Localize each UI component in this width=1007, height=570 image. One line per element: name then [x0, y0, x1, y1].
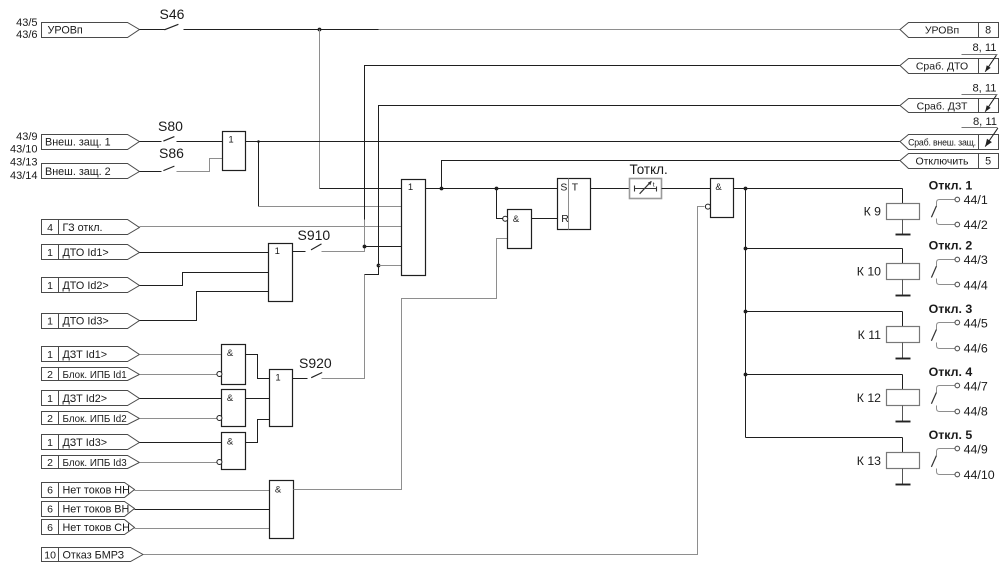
contact Откл. 4 upper terminal	[937, 383, 960, 392]
wire U4 output	[426, 188, 558, 190]
svg-text:Откл. 4: Откл. 4	[929, 365, 973, 379]
OR gate D1	[223, 132, 246, 171]
wire D3 output to OR D6	[246, 355, 270, 379]
svg-text:Нет токов СН: Нет токов СН	[63, 522, 130, 534]
contact Откл. 5 lower terminal	[937, 469, 960, 477]
wire U8 output	[734, 188, 746, 190]
node D1 output junction	[257, 140, 260, 143]
svg-text:6: 6	[47, 484, 53, 496]
contact Откл. 1 blade	[931, 206, 936, 217]
wire ДЗТ Id2 to NAND D4	[140, 398, 222, 400]
pin 44/3	[964, 253, 988, 267]
svg-text:S: S	[560, 183, 567, 194]
svg-text:10: 10	[44, 549, 56, 561]
relay coil К 9	[887, 204, 920, 220]
input flag Внеш. защ. 2	[42, 164, 140, 179]
svg-text:1: 1	[228, 134, 233, 145]
wire down to NAND U5 input 1	[497, 189, 504, 219]
switch S920	[293, 355, 332, 379]
svg-text:8: 8	[985, 25, 991, 37]
wire trigger output to timer	[591, 188, 630, 190]
svg-text:44/2: 44/2	[964, 218, 988, 232]
wire S910 junction gray segment	[364, 220, 366, 247]
svg-text:1: 1	[47, 280, 53, 292]
wire coil К 10 to ground	[902, 280, 904, 295]
label contact Откл. 2	[929, 239, 973, 253]
AND gate D3 with inverted input	[217, 345, 246, 385]
svg-text:44/10: 44/10	[964, 468, 995, 482]
input flag ДЗТ Id3>	[42, 435, 140, 450]
ground К 9	[896, 234, 911, 236]
svg-text:S46: S46	[160, 6, 185, 22]
relay coil К 11	[887, 327, 920, 343]
pin 44/7	[964, 379, 988, 393]
input flag Нет токов СН	[42, 520, 135, 535]
input flag Отказ БМРЗ	[42, 548, 144, 562]
switch S86	[140, 145, 185, 172]
OR gate D6	[270, 370, 293, 427]
wire УРОВп to output flag	[184, 29, 901, 31]
wire ДЗТ Id1 to NAND D3	[140, 354, 222, 356]
svg-text:44/4: 44/4	[964, 279, 988, 293]
svg-text:ДТО Id2>: ДТО Id2>	[63, 280, 109, 292]
wire Нет токов НН to AND D7	[135, 490, 270, 492]
svg-text:2: 2	[47, 457, 53, 469]
wire up to Сраб. ДЗТ output	[379, 106, 901, 266]
pin 44/1	[964, 193, 988, 207]
svg-text:Сраб. ДЗТ: Сраб. ДЗТ	[917, 100, 968, 112]
wire branch to relay К 9	[746, 188, 903, 190]
svg-text:44/1: 44/1	[964, 193, 988, 207]
svg-text:1: 1	[47, 247, 53, 259]
svg-text:ДТО Id1>: ДТО Id1>	[63, 247, 109, 259]
node bus junction К 11	[744, 310, 748, 314]
wire timer output to AND U8	[662, 188, 711, 190]
wire ДТО Id1 to OR D2	[140, 252, 269, 254]
svg-text:Откл. 2: Откл. 2	[929, 239, 973, 253]
svg-text:43/13: 43/13	[10, 156, 38, 168]
svg-text:Сраб. ДТО: Сраб. ДТО	[916, 60, 968, 72]
wire D4 output to OR D6	[246, 398, 270, 400]
contact Откл. 4 blade	[931, 393, 936, 404]
wire S86 to OR D1	[177, 159, 223, 172]
svg-text:Блок. ИПБ Id1: Блок. ИПБ Id1	[63, 370, 127, 381]
svg-text:Блок. ИПБ Id3: Блок. ИПБ Id3	[63, 458, 128, 469]
wire ДТО Id3 to OR D2	[140, 292, 269, 321]
timer Тоткл.	[630, 179, 662, 199]
svg-text:6: 6	[47, 503, 53, 515]
label Тоткл.	[630, 162, 668, 177]
svg-text:ДТО Id3>: ДТО Id3>	[63, 315, 109, 327]
contact Откл. 2 blade	[931, 266, 936, 277]
svg-text:ГЗ откл.: ГЗ откл.	[63, 222, 103, 234]
svg-text:2: 2	[47, 413, 53, 425]
svg-text:8, 11: 8, 11	[973, 116, 997, 128]
svg-text:К 11: К 11	[858, 328, 882, 342]
svg-text:1: 1	[47, 437, 53, 449]
svg-text:8, 11: 8, 11	[972, 82, 996, 94]
svg-text:1: 1	[408, 182, 413, 193]
node U4 output junction A	[440, 187, 444, 191]
svg-text:Тоткл.: Тоткл.	[630, 162, 668, 177]
pin 44/4	[964, 279, 988, 293]
svg-text:43/9: 43/9	[16, 131, 37, 143]
wire ГЗ откл. to OR U4 input 3	[140, 226, 402, 228]
wire into coil К 11	[902, 312, 904, 327]
label 8, 11 for Сраб. ДТО	[962, 42, 998, 54]
node УРОВп junction	[318, 28, 322, 32]
output flag Сраб. ДЗТ	[900, 99, 999, 113]
wire S910 output	[322, 247, 365, 252]
wire up to Сраб. ДТО output	[365, 66, 901, 220]
node S920 junction	[377, 264, 381, 268]
svg-text:К 10: К 10	[857, 265, 881, 279]
contact Откл. 3 upper terminal	[937, 320, 960, 329]
wire into coil К 13	[902, 438, 904, 453]
svg-text:&: &	[513, 214, 520, 225]
contact Откл. 1 lower terminal	[937, 219, 960, 227]
svg-text:2: 2	[47, 369, 53, 381]
pins 43/9 43/10	[10, 131, 38, 155]
wire Блок. ИПБ Id3 to NAND D5	[140, 462, 217, 464]
output flag Сраб. внеш. защ.	[900, 135, 999, 150]
svg-text:Сраб. внеш. защ.: Сраб. внеш. защ.	[908, 137, 976, 147]
pin 44/6	[964, 342, 988, 356]
node bus junction К 12	[744, 373, 748, 377]
contact Откл. 4 lower terminal	[937, 406, 960, 414]
wire branch to relay К 13	[746, 437, 903, 439]
svg-text:&: &	[227, 348, 234, 359]
output flag Отключить	[900, 154, 999, 169]
svg-text:Отключить: Отключить	[915, 156, 969, 168]
ground К 12	[896, 421, 911, 423]
wire D7 output to NAND U5 input 2	[294, 239, 508, 490]
ground К 10	[896, 295, 911, 297]
svg-text:8, 11: 8, 11	[972, 42, 996, 54]
input flag ГЗ откл.	[42, 220, 140, 235]
svg-text:43/5: 43/5	[16, 17, 37, 29]
svg-text:К 13: К 13	[857, 454, 881, 468]
svg-text:Откл. 5: Откл. 5	[929, 428, 973, 442]
wire УРОВп down to OR U4 input 1	[320, 30, 402, 189]
svg-text:ДЗТ Id1>: ДЗТ Id1>	[63, 349, 108, 361]
ground К 11	[896, 358, 911, 360]
RS trigger U6	[558, 179, 591, 230]
wire U5 output to RS trigger R input	[532, 218, 558, 220]
wire into coil К 9	[902, 189, 904, 204]
label contact Откл. 5	[929, 428, 973, 442]
node S910 junction	[363, 245, 367, 249]
node bus junction К 10	[744, 247, 748, 251]
wire S920 to OR U4 input 5	[379, 265, 402, 267]
contact Откл. 3 lower terminal	[937, 343, 960, 351]
AND gate D7	[270, 481, 294, 539]
input flag Блок. ИПБ Id3	[42, 456, 140, 469]
wire into coil К 10	[902, 249, 904, 264]
svg-text:44/5: 44/5	[964, 316, 988, 330]
svg-text:T: T	[572, 183, 579, 194]
svg-text:44/9: 44/9	[964, 442, 988, 456]
pin 44/8	[964, 405, 988, 419]
svg-text:5: 5	[985, 156, 991, 168]
input flag Внеш. защ. 1	[42, 135, 140, 150]
svg-text:Откл. 1: Откл. 1	[929, 178, 973, 192]
svg-text:S920: S920	[299, 355, 332, 371]
wire into coil К 12	[902, 375, 904, 390]
input flag ДТО Id1>	[42, 245, 140, 260]
pin 44/2	[964, 218, 988, 232]
wire ДТО Id2 to OR D2	[140, 273, 269, 286]
input flag Блок. ИПБ Id1	[42, 368, 140, 381]
label 8, 11 for Сраб. внеш. защ.	[962, 116, 998, 128]
wire Отказ БМРЗ to AND U8 inverted input	[144, 207, 705, 555]
svg-text:t: t	[653, 182, 655, 189]
wire Нет токов СН to AND D7	[135, 528, 270, 530]
svg-text:R: R	[561, 214, 569, 225]
svg-text:43/6: 43/6	[16, 29, 37, 41]
signal-to-recorder icon on Сраб. ДЗТ	[985, 95, 996, 112]
svg-text:УРОВп: УРОВп	[48, 25, 83, 37]
svg-text:Внеш. защ. 1: Внеш. защ. 1	[45, 136, 111, 148]
switch S910	[293, 227, 331, 252]
AND gate U5 with inverted input	[503, 210, 532, 249]
pins 43/13 43/14	[10, 156, 38, 182]
svg-text:&: &	[715, 182, 722, 193]
wire branch to relay К 12	[746, 374, 903, 376]
svg-text:ДЗТ Id3>: ДЗТ Id3>	[63, 437, 108, 449]
wire ДЗТ Id3 to NAND D5	[140, 442, 222, 444]
svg-text:44/6: 44/6	[964, 342, 988, 356]
wire D1 output down to OR U4 input 2	[259, 142, 402, 207]
wire to Отключить output	[442, 161, 901, 189]
input flag ДТО Id3>	[42, 314, 140, 329]
svg-text:1: 1	[47, 393, 53, 405]
contact Откл. 3 blade	[931, 330, 936, 341]
wire Блок. ИПБ Id1 to NAND D3	[140, 374, 217, 376]
relay coil К 10	[887, 264, 920, 280]
output flag УРОВп out	[900, 23, 999, 38]
wire S80 to OR D1	[177, 141, 223, 143]
switch S46	[140, 6, 185, 30]
svg-text:1: 1	[275, 372, 280, 383]
svg-text:&: &	[275, 485, 282, 496]
svg-text:Откл. 3: Откл. 3	[929, 302, 973, 316]
svg-text:S86: S86	[159, 145, 184, 161]
svg-text:Нет токов ВН: Нет токов ВН	[63, 503, 130, 515]
label К 12	[857, 391, 881, 405]
input flag Блок. ИПБ Id2	[42, 412, 140, 425]
svg-text:К 12: К 12	[857, 391, 881, 405]
svg-text:УРОВп: УРОВп	[925, 25, 959, 37]
svg-text:43/10: 43/10	[10, 144, 38, 156]
wire D5 output to OR D6	[246, 420, 270, 443]
wire S910 to OR U4 input 4	[365, 246, 402, 248]
label 8, 11 for Сраб. ДЗТ	[962, 82, 998, 94]
input flag ДТО Id2>	[42, 278, 140, 293]
input flag УРОВп	[42, 23, 140, 38]
AND gate D5 with inverted input	[217, 433, 246, 470]
relay coil К 12	[887, 390, 920, 406]
svg-text:&: &	[227, 437, 234, 448]
wire branch to relay К 10	[746, 248, 903, 250]
contact Откл. 5 upper terminal	[937, 446, 960, 455]
wire coil К 12 to ground	[902, 406, 904, 422]
contact Откл. 2 upper terminal	[937, 257, 960, 266]
input flag ДЗТ Id2>	[42, 391, 140, 406]
svg-text:1: 1	[47, 315, 53, 327]
label К 10	[857, 265, 881, 279]
svg-text:ДЗТ Id2>: ДЗТ Id2>	[63, 393, 108, 405]
signal-to-recorder icon on Сраб. внеш. защ.	[985, 128, 998, 147]
switch S80	[140, 118, 184, 142]
svg-text:Блок. ИПБ Id2: Блок. ИПБ Id2	[63, 414, 127, 425]
contact Откл. 5 blade	[931, 456, 936, 467]
node output bus junction	[744, 187, 748, 191]
label contact Откл. 4	[929, 365, 973, 379]
svg-text:S910: S910	[298, 227, 331, 243]
label contact Откл. 1	[929, 178, 973, 192]
svg-text:Отказ БМРЗ: Отказ БМРЗ	[63, 549, 125, 561]
wire S920 output route	[322, 266, 379, 379]
wire Блок. ИПБ Id2 to NAND D4	[140, 418, 217, 420]
svg-text:6: 6	[47, 522, 53, 534]
wire output bus vertical	[745, 189, 747, 438]
svg-text:К 9: К 9	[864, 204, 882, 218]
pin 44/5	[964, 316, 988, 330]
svg-text:44/8: 44/8	[964, 405, 988, 419]
OR gate U4	[402, 180, 426, 276]
svg-text:43/14: 43/14	[10, 170, 38, 182]
svg-text:4: 4	[47, 222, 53, 234]
pin 44/9	[964, 442, 988, 456]
contact Откл. 2 lower terminal	[937, 279, 960, 287]
wire D1 output to Сраб. внеш. защ.	[246, 141, 901, 143]
svg-text:Внеш. защ. 2: Внеш. защ. 2	[45, 166, 111, 178]
input flag ДЗТ Id1>	[42, 347, 140, 362]
wire coil К 13 to ground	[902, 469, 904, 485]
contact Откл. 1 upper terminal	[937, 197, 960, 206]
node U4 output junction B	[495, 187, 499, 191]
label К 11	[858, 328, 882, 342]
AND gate U8 with inverted input	[705, 179, 733, 218]
pins 43/5 43/6	[16, 17, 37, 41]
pin 44/10	[964, 468, 995, 482]
AND gate D4 with inverted input	[217, 390, 246, 427]
label К 9	[864, 204, 882, 218]
svg-text:&: &	[227, 393, 234, 404]
wire branch to relay К 11	[746, 311, 903, 313]
svg-text:44/7: 44/7	[964, 379, 988, 393]
ground К 13	[896, 484, 911, 486]
input flag Нет токов НН	[42, 483, 135, 498]
signal-to-recorder icon on Сраб. ДТО	[985, 55, 996, 71]
relay coil К 13	[887, 453, 920, 469]
label К 13	[857, 454, 881, 468]
output flag Сраб. ДТО	[900, 59, 999, 74]
wire coil К 11 to ground	[902, 343, 904, 359]
svg-text:S80: S80	[158, 118, 183, 134]
OR gate D2	[269, 244, 293, 302]
svg-text:1: 1	[275, 246, 280, 257]
wire coil К 9 to ground	[902, 220, 904, 235]
svg-text:44/3: 44/3	[964, 253, 988, 267]
label contact Откл. 3	[929, 302, 973, 316]
input flag Нет токов ВН	[42, 502, 135, 517]
svg-text:1: 1	[47, 349, 53, 361]
svg-text:Нет токов НН: Нет токов НН	[63, 484, 130, 496]
wire Нет токов ВН to AND D7	[135, 509, 270, 511]
